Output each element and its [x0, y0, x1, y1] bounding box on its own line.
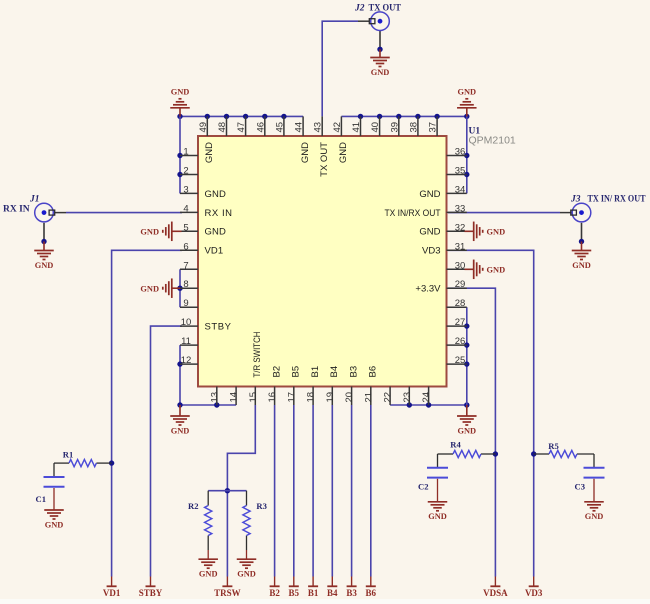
pin 48: [226, 116, 228, 136]
junction pin 45 on GND bus: [281, 114, 286, 119]
pin 31: [447, 249, 467, 251]
svg-text:11: 11: [181, 336, 191, 347]
junction bottom-left ground corner: [177, 402, 182, 407]
svg-text:B2: B2: [271, 366, 282, 378]
svg-text:J3: J3: [570, 195, 581, 205]
pin 11: [180, 344, 198, 346]
wire TX IN/RX OUT from pin 33 to J3: [448, 212, 560, 214]
pin 8: [180, 287, 198, 289]
svg-text:B1: B1: [308, 588, 319, 598]
svg-text:39: 39: [389, 122, 400, 133]
svg-text:TX IN/ RX OUT: TX IN/ RX OUT: [588, 195, 647, 205]
junction pin 27: [464, 323, 469, 328]
svg-text:B6: B6: [366, 588, 377, 598]
svg-text:STBY: STBY: [139, 588, 163, 598]
junction J1 ground: [41, 239, 46, 244]
wire net from pin 18 to bottom port: [312, 405, 314, 577]
svg-text:41: 41: [351, 122, 362, 133]
svg-text:GND: GND: [140, 227, 159, 236]
pin 24: [428, 387, 430, 406]
pin 34: [447, 192, 467, 194]
svg-text:GND: GND: [419, 227, 440, 238]
port STBY: [146, 577, 156, 587]
svg-text:GND: GND: [428, 512, 447, 521]
svg-text:35: 35: [455, 166, 466, 177]
junction pin 35: [464, 172, 469, 177]
wire net VD1 from pin 6: [112, 250, 182, 576]
pin 6: [180, 249, 198, 251]
resistor R1: [54, 462, 112, 464]
op-amp U1 QPM2101 body: [198, 136, 447, 387]
capacitor C2: [427, 467, 448, 469]
wire net VDSA from pin 29: [448, 288, 495, 576]
svg-text:33: 33: [455, 203, 466, 214]
svg-text:TX IN/RX OUT: TX IN/RX OUT: [385, 208, 441, 219]
pin 17: [293, 387, 295, 406]
pin 16: [274, 387, 276, 406]
svg-text:30: 30: [455, 260, 466, 271]
pin 3: [180, 192, 198, 194]
svg-text:R2: R2: [188, 501, 199, 511]
wire net STBY from pin 10: [151, 326, 183, 576]
connector J3: [572, 203, 591, 222]
pin 27: [447, 325, 467, 327]
svg-text:44: 44: [294, 122, 305, 133]
junction pin 49 on GND bus: [205, 114, 210, 119]
pin 47: [245, 116, 247, 136]
svg-text:B6: B6: [368, 366, 379, 378]
resistor R4: [438, 453, 496, 455]
ground R3: [246, 550, 248, 559]
wire net TRSW from pin 15: [227, 405, 255, 577]
pin 32: [447, 230, 467, 232]
svg-text:21: 21: [363, 392, 374, 403]
junction pin 12: [177, 361, 182, 366]
pin 42: [340, 116, 342, 136]
svg-text:B3: B3: [348, 366, 359, 378]
junction pin 24: [426, 402, 431, 407]
svg-text:15: 15: [248, 392, 259, 403]
pin 45: [283, 116, 285, 136]
pin 39: [398, 116, 400, 136]
ground J2: [379, 49, 381, 57]
svg-text:10: 10: [181, 317, 192, 328]
svg-text:49: 49: [198, 122, 209, 133]
junction pin 23: [407, 402, 412, 407]
pin 18: [312, 387, 314, 406]
resistor R2: [207, 491, 209, 550]
pin 4: [180, 211, 198, 213]
svg-text:32: 32: [455, 222, 466, 233]
junction top-right bus corner: [464, 114, 469, 119]
port B2: [270, 577, 280, 587]
port VD3: [529, 577, 539, 587]
pin 49: [206, 116, 208, 136]
svg-text:2: 2: [183, 166, 188, 177]
svg-text:GND: GND: [205, 227, 226, 238]
junction top-left bus corner: [177, 114, 182, 119]
svg-text:B2: B2: [269, 588, 280, 598]
junction bottom-right ground corner: [464, 402, 469, 407]
junction pin 36: [464, 153, 469, 158]
svg-text:TX OUT: TX OUT: [369, 4, 402, 14]
pin 38: [417, 116, 419, 136]
wire right GND to pins 34-36: [466, 116, 468, 193]
svg-text:GND: GND: [171, 87, 190, 96]
pin 13: [216, 387, 218, 406]
svg-text:3: 3: [183, 184, 188, 195]
junction pin 41 on GND bus: [358, 114, 363, 119]
wire top GND bus right (pins 42-37): [341, 115, 466, 117]
junction pin 8 ground: [177, 286, 182, 291]
pin 29: [447, 287, 467, 289]
svg-text:GND: GND: [205, 189, 226, 200]
pin 19: [331, 387, 333, 406]
svg-text:GND: GND: [45, 520, 64, 529]
svg-text:GND: GND: [457, 87, 476, 96]
svg-text:GND: GND: [457, 426, 476, 435]
svg-text:42: 42: [332, 122, 343, 133]
svg-text:19: 19: [325, 392, 336, 403]
junction pin 40 on GND bus: [377, 114, 382, 119]
wire net from pin 17 to bottom port: [293, 405, 295, 577]
svg-text:R4: R4: [450, 440, 461, 450]
svg-text:48: 48: [217, 122, 228, 133]
svg-text:R1: R1: [63, 450, 74, 460]
pin 9: [180, 306, 198, 308]
wire J2 shield to ground: [379, 31, 381, 50]
svg-text:B4: B4: [329, 366, 340, 378]
pin 7: [180, 268, 198, 270]
svg-text:23: 23: [402, 392, 413, 403]
svg-text:38: 38: [408, 122, 419, 133]
svg-text:GND: GND: [371, 68, 390, 77]
pin 21: [370, 387, 372, 406]
svg-text:24: 24: [421, 392, 432, 403]
ground J1: [43, 242, 45, 251]
pin 20: [351, 387, 353, 406]
ground at pins 7-9: [172, 287, 180, 289]
svg-text:47: 47: [236, 122, 247, 133]
port B5: [289, 577, 299, 587]
port B3: [347, 577, 357, 587]
svg-text:J1: J1: [29, 195, 40, 205]
svg-text:GND: GND: [338, 142, 349, 163]
port B4: [327, 577, 337, 587]
svg-text:1: 1: [183, 147, 188, 158]
wire net VD3 from pin 31: [448, 250, 534, 576]
pin 23: [408, 387, 410, 406]
junction pin 47 on GND bus: [243, 114, 248, 119]
svg-text:27: 27: [455, 317, 466, 328]
svg-text:R3: R3: [256, 501, 267, 511]
resistor R3: [246, 491, 248, 550]
junction pin 26: [464, 342, 469, 347]
wire R4 to C2: [437, 454, 439, 467]
wire GND pins 7-9: [179, 269, 181, 307]
junction pin 38 on GND bus: [415, 114, 420, 119]
pin 2: [180, 174, 198, 176]
wire net from pin 16 to bottom port: [274, 405, 276, 577]
port VD1: [107, 577, 117, 587]
ground top-right: [466, 108, 468, 117]
svg-text:C3: C3: [574, 482, 585, 492]
pin 41: [360, 116, 362, 136]
wire R1 to C1: [53, 463, 55, 476]
ground bottom-right: [466, 405, 468, 416]
pin 25: [447, 363, 467, 365]
pin 12: [180, 363, 198, 365]
pin 22: [389, 387, 391, 406]
svg-text:GND: GND: [171, 426, 190, 435]
wire RX IN from J1 to pin 4: [55, 212, 67, 214]
pin 35: [447, 174, 467, 176]
svg-text:GND: GND: [199, 570, 218, 579]
wire left GND to pins 1-3: [179, 116, 181, 193]
svg-text:43: 43: [313, 122, 324, 133]
svg-text:GND: GND: [585, 512, 604, 521]
connector J1: [35, 203, 54, 222]
svg-text:GND: GND: [419, 189, 440, 200]
svg-text:VD3: VD3: [525, 588, 543, 598]
svg-text:7: 7: [183, 260, 188, 271]
svg-text:C2: C2: [418, 482, 429, 492]
svg-text:12: 12: [181, 355, 192, 366]
svg-text:18: 18: [306, 392, 317, 403]
svg-text:QPM2101: QPM2101: [469, 135, 516, 147]
ground C2: [437, 479, 439, 502]
svg-text:TX OUT: TX OUT: [319, 142, 330, 177]
svg-text:GND: GND: [237, 570, 256, 579]
svg-text:B5: B5: [289, 588, 300, 598]
wire J3 shield to ground: [581, 223, 583, 242]
svg-text:VDSA: VDSA: [483, 588, 508, 598]
svg-text:GND: GND: [572, 261, 591, 270]
pin 44: [302, 116, 304, 136]
junction R1 to VD1: [109, 460, 114, 465]
ground at pin 30: [465, 268, 474, 270]
ground at pin 32: [465, 230, 474, 232]
svg-text:40: 40: [370, 122, 381, 133]
svg-text:STBY: STBY: [205, 322, 232, 333]
junction TRSW with R2 R3: [225, 488, 230, 493]
ground C3: [593, 479, 595, 502]
junction R5 to VD3: [531, 451, 536, 456]
pin 1: [180, 155, 198, 157]
svg-text:17: 17: [286, 392, 297, 403]
svg-text:J2: J2: [354, 4, 365, 14]
svg-text:26: 26: [455, 336, 466, 347]
pin 28: [447, 306, 467, 308]
svg-text:20: 20: [344, 392, 355, 403]
ground bottom-left: [179, 405, 181, 416]
svg-text:36: 36: [455, 147, 466, 158]
junction pin 48 on GND bus: [224, 114, 229, 119]
capacitor C1: [44, 476, 65, 478]
wire net from pin 19 to bottom port: [331, 405, 333, 577]
ground C1: [53, 488, 55, 510]
ground J3: [581, 242, 583, 251]
svg-text:RX IN: RX IN: [205, 208, 233, 219]
svg-text:C1: C1: [35, 494, 46, 504]
wire pins 11-12 to bottom ground: [180, 345, 236, 405]
pin 14: [235, 387, 237, 406]
pin 40: [379, 116, 381, 136]
pin 36: [447, 155, 467, 157]
wire pins 25-28 right side: [466, 307, 468, 405]
wire net from pin 21 to bottom port: [370, 405, 372, 577]
junction pin 25: [464, 361, 469, 366]
svg-text:4: 4: [183, 203, 188, 214]
pin 43: [321, 116, 323, 136]
svg-text:6: 6: [183, 241, 188, 252]
capacitor C3: [584, 467, 605, 469]
svg-text:9: 9: [183, 298, 188, 309]
junction pin 46 on GND bus: [262, 114, 267, 119]
wire R5 to C3: [593, 454, 595, 467]
ground R2: [207, 550, 209, 559]
junction pin 1: [177, 153, 182, 158]
junction J2 ground: [377, 47, 382, 52]
wire net from pin 20 to bottom port: [351, 405, 353, 577]
svg-text:25: 25: [455, 355, 466, 366]
pin 15: [254, 387, 256, 406]
svg-text:VD1: VD1: [205, 246, 224, 257]
wire top GND bus left (pins 49-44): [180, 115, 303, 117]
svg-text:29: 29: [455, 279, 466, 290]
svg-text:GND: GND: [204, 142, 215, 163]
svg-text:8: 8: [183, 279, 188, 290]
svg-text:T/R SWITCH: T/R SWITCH: [252, 331, 263, 377]
svg-text:37: 37: [428, 122, 439, 133]
pin 5: [180, 230, 198, 232]
port TRSW: [222, 577, 232, 587]
svg-text:45: 45: [274, 122, 285, 133]
svg-text:GND: GND: [487, 265, 506, 274]
junction pin 37 on GND bus: [434, 114, 439, 119]
pin 26: [447, 344, 467, 346]
ground top-left: [179, 108, 181, 117]
svg-text:RX IN: RX IN: [3, 205, 30, 215]
resistor R5: [534, 453, 594, 455]
pin 10: [180, 325, 198, 327]
wire R2 R3 tops: [208, 490, 246, 492]
svg-text:B1: B1: [310, 366, 321, 378]
svg-text:B4: B4: [327, 588, 338, 598]
svg-text:13: 13: [209, 392, 220, 403]
svg-text:16: 16: [267, 392, 278, 403]
wire TX OUT from J2 to pin 43: [358, 20, 370, 22]
wire J1 shield to ground: [43, 223, 45, 242]
svg-text:VD3: VD3: [422, 246, 440, 257]
svg-text:28: 28: [455, 298, 466, 309]
junction R4 to VDSA: [493, 451, 498, 456]
svg-text:14: 14: [229, 392, 240, 403]
pin 37: [436, 116, 438, 136]
port VDSA: [490, 577, 500, 587]
pin 46: [264, 116, 266, 136]
svg-text:5: 5: [183, 222, 188, 233]
svg-text:B3: B3: [346, 588, 357, 598]
ground at pin 5: [172, 230, 182, 232]
pin 30: [447, 268, 467, 270]
svg-text:B5: B5: [291, 366, 302, 378]
junction pin 2: [177, 172, 182, 177]
svg-text:GND: GND: [300, 142, 311, 163]
svg-text:TRSW: TRSW: [214, 588, 241, 598]
port B6: [366, 577, 376, 587]
junction pin 39 on GND bus: [396, 114, 401, 119]
svg-text:VD1: VD1: [103, 588, 121, 598]
svg-text:31: 31: [455, 241, 466, 252]
pin 33: [447, 211, 467, 213]
svg-text:22: 22: [383, 392, 394, 403]
svg-text:34: 34: [455, 184, 466, 195]
svg-text:46: 46: [255, 122, 266, 133]
junction pin 13: [214, 402, 219, 407]
junction J3 ground: [579, 239, 584, 244]
connector J2: [371, 12, 390, 31]
svg-text:+3.3V: +3.3V: [415, 284, 441, 295]
wire pins 22-24 to bottom-right ground: [390, 404, 467, 406]
svg-text:GND: GND: [487, 227, 506, 236]
port B1: [308, 577, 318, 587]
svg-text:R5: R5: [548, 441, 559, 451]
svg-text:GND: GND: [140, 284, 159, 293]
svg-text:GND: GND: [35, 261, 54, 270]
